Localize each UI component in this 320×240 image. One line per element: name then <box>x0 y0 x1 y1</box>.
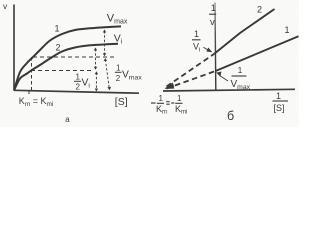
svg-text:v: v <box>210 17 215 28</box>
svg-text:а: а <box>65 115 70 124</box>
svg-text:1: 1 <box>238 65 243 75</box>
svg-text:1: 1 <box>116 64 121 73</box>
svg-text:2: 2 <box>76 83 81 92</box>
svg-text:1: 1 <box>211 3 216 13</box>
svg-text:[S]: [S] <box>115 96 128 108</box>
svg-text:1: 1 <box>276 91 281 101</box>
svg-text:б: б <box>227 109 234 123</box>
svg-text:2: 2 <box>56 43 61 53</box>
svg-text:1: 1 <box>55 24 60 34</box>
svg-text:1: 1 <box>285 25 290 35</box>
svg-text:1: 1 <box>159 94 164 103</box>
svg-text:1: 1 <box>76 73 81 82</box>
svg-text:1: 1 <box>177 94 182 103</box>
svg-text:2: 2 <box>116 74 121 83</box>
svg-text:[S]: [S] <box>274 103 285 113</box>
svg-text:1: 1 <box>194 29 199 39</box>
svg-text:2: 2 <box>257 5 262 15</box>
